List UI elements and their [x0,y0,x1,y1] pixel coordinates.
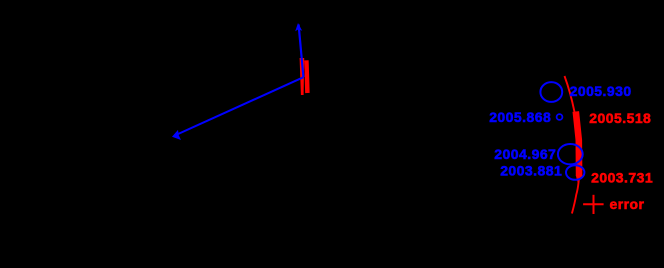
svg-text:2005.868: 2005.868 [489,109,551,125]
svg-text:2005.930: 2005.930 [570,83,632,99]
svg-text:error: error [610,196,645,212]
svg-text:2004.967: 2004.967 [494,146,556,162]
left panel: error bar 2005.518 (real scale) [300,58,305,95]
right panel: orbit curve (red, thin) [565,76,580,214]
left panel: error bar 2003.731 (real scale) [306,60,307,93]
error cross [583,203,604,205]
svg-text:2003.881: 2003.881 [500,163,562,179]
circle epoch 2005.930 [540,82,562,102]
circle epoch 2004.967 [558,144,583,164]
svg-text:2005.518: 2005.518 [589,110,651,126]
north arrow head [295,23,302,31]
right panel: thick error bar 2005.518 [576,112,579,177]
east arrow shaft [175,77,304,135]
right panel: error bar 2003.731 [576,176,583,184]
east arrow head [172,130,181,140]
svg-text:2003.731: 2003.731 [591,169,653,185]
north arrow shaft [299,25,304,78]
circle epoch 2003.881 [566,165,584,180]
circle epoch 2005.868 (small) [557,114,563,120]
